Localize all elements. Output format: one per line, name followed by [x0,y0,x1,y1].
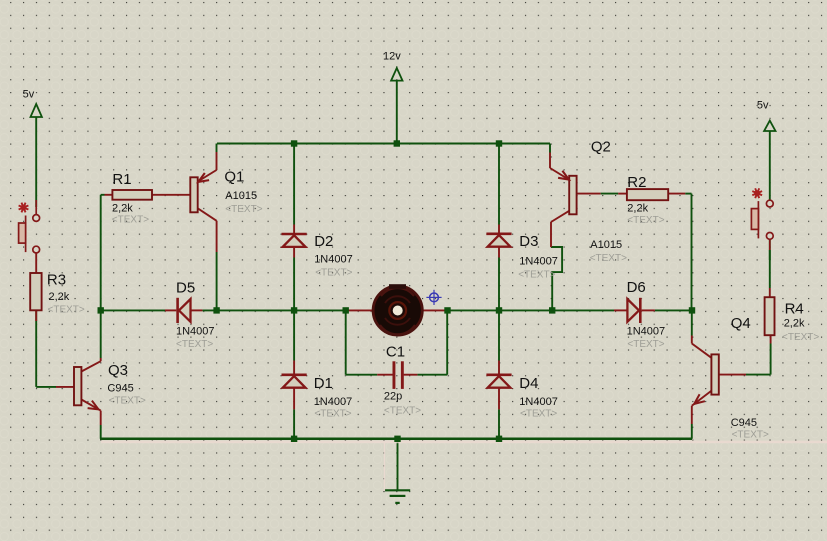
svg-text:D3: D3 [519,233,538,250]
svg-text:C1: C1 [386,344,405,361]
svg-text:Q2: Q2 [591,139,611,156]
svg-text:<TEXT>: <TEXT> [627,215,664,226]
svg-text:2,2k: 2,2k [112,203,133,215]
svg-text:Q4: Q4 [731,315,751,332]
svg-text:R1: R1 [112,171,131,188]
svg-text:A1015: A1015 [225,190,257,202]
svg-text:D4: D4 [519,375,538,392]
svg-text:<TEXT>: <TEXT> [520,409,557,420]
svg-text:1N4007: 1N4007 [627,326,666,338]
svg-text:2,2k: 2,2k [784,318,805,330]
svg-text:<TEXT>: <TEXT> [627,339,664,350]
svg-text:1N4007: 1N4007 [519,396,558,408]
svg-text:12v: 12v [383,51,401,63]
svg-text:R4: R4 [785,301,804,318]
svg-text:1N4007: 1N4007 [314,253,353,265]
svg-text:1N4007: 1N4007 [176,326,215,338]
svg-text:<TEXT>: <TEXT> [176,339,213,350]
svg-text:22p: 22p [384,391,402,403]
svg-text:<TEXT>: <TEXT> [225,204,262,215]
svg-text:C945: C945 [731,417,757,429]
svg-text:<TEXT>: <TEXT> [48,305,85,316]
svg-text:R3: R3 [47,271,66,288]
svg-text:1N4007: 1N4007 [519,255,558,267]
svg-text:<TEXT>: <TEXT> [314,409,351,420]
svg-text:C945: C945 [107,383,133,395]
svg-text:<TEXT>: <TEXT> [590,253,627,264]
svg-text:<TEXT>: <TEXT> [732,429,769,440]
svg-text:D2: D2 [314,233,333,250]
svg-text:D5: D5 [176,280,195,297]
svg-text:<TEXT>: <TEXT> [782,332,819,343]
svg-text:D1: D1 [314,375,333,392]
svg-text:<TEXT>: <TEXT> [315,268,352,279]
svg-text:2,2k: 2,2k [627,202,648,214]
svg-text:2,2k: 2,2k [49,291,70,303]
svg-text:5v: 5v [757,100,769,112]
svg-text:<TEXT>: <TEXT> [112,214,149,225]
svg-text:D6: D6 [627,279,646,296]
svg-text:A1015: A1015 [590,239,622,251]
svg-text:<TEXT>: <TEXT> [518,269,555,280]
svg-text:Q3: Q3 [108,362,128,379]
svg-text:1N4007: 1N4007 [314,396,353,408]
svg-text:<TEXT>: <TEXT> [109,395,146,406]
svg-text:R2: R2 [627,174,646,191]
svg-text:5v: 5v [23,88,35,100]
svg-text:<TEXT>: <TEXT> [384,406,421,417]
svg-text:Q1: Q1 [224,168,244,185]
